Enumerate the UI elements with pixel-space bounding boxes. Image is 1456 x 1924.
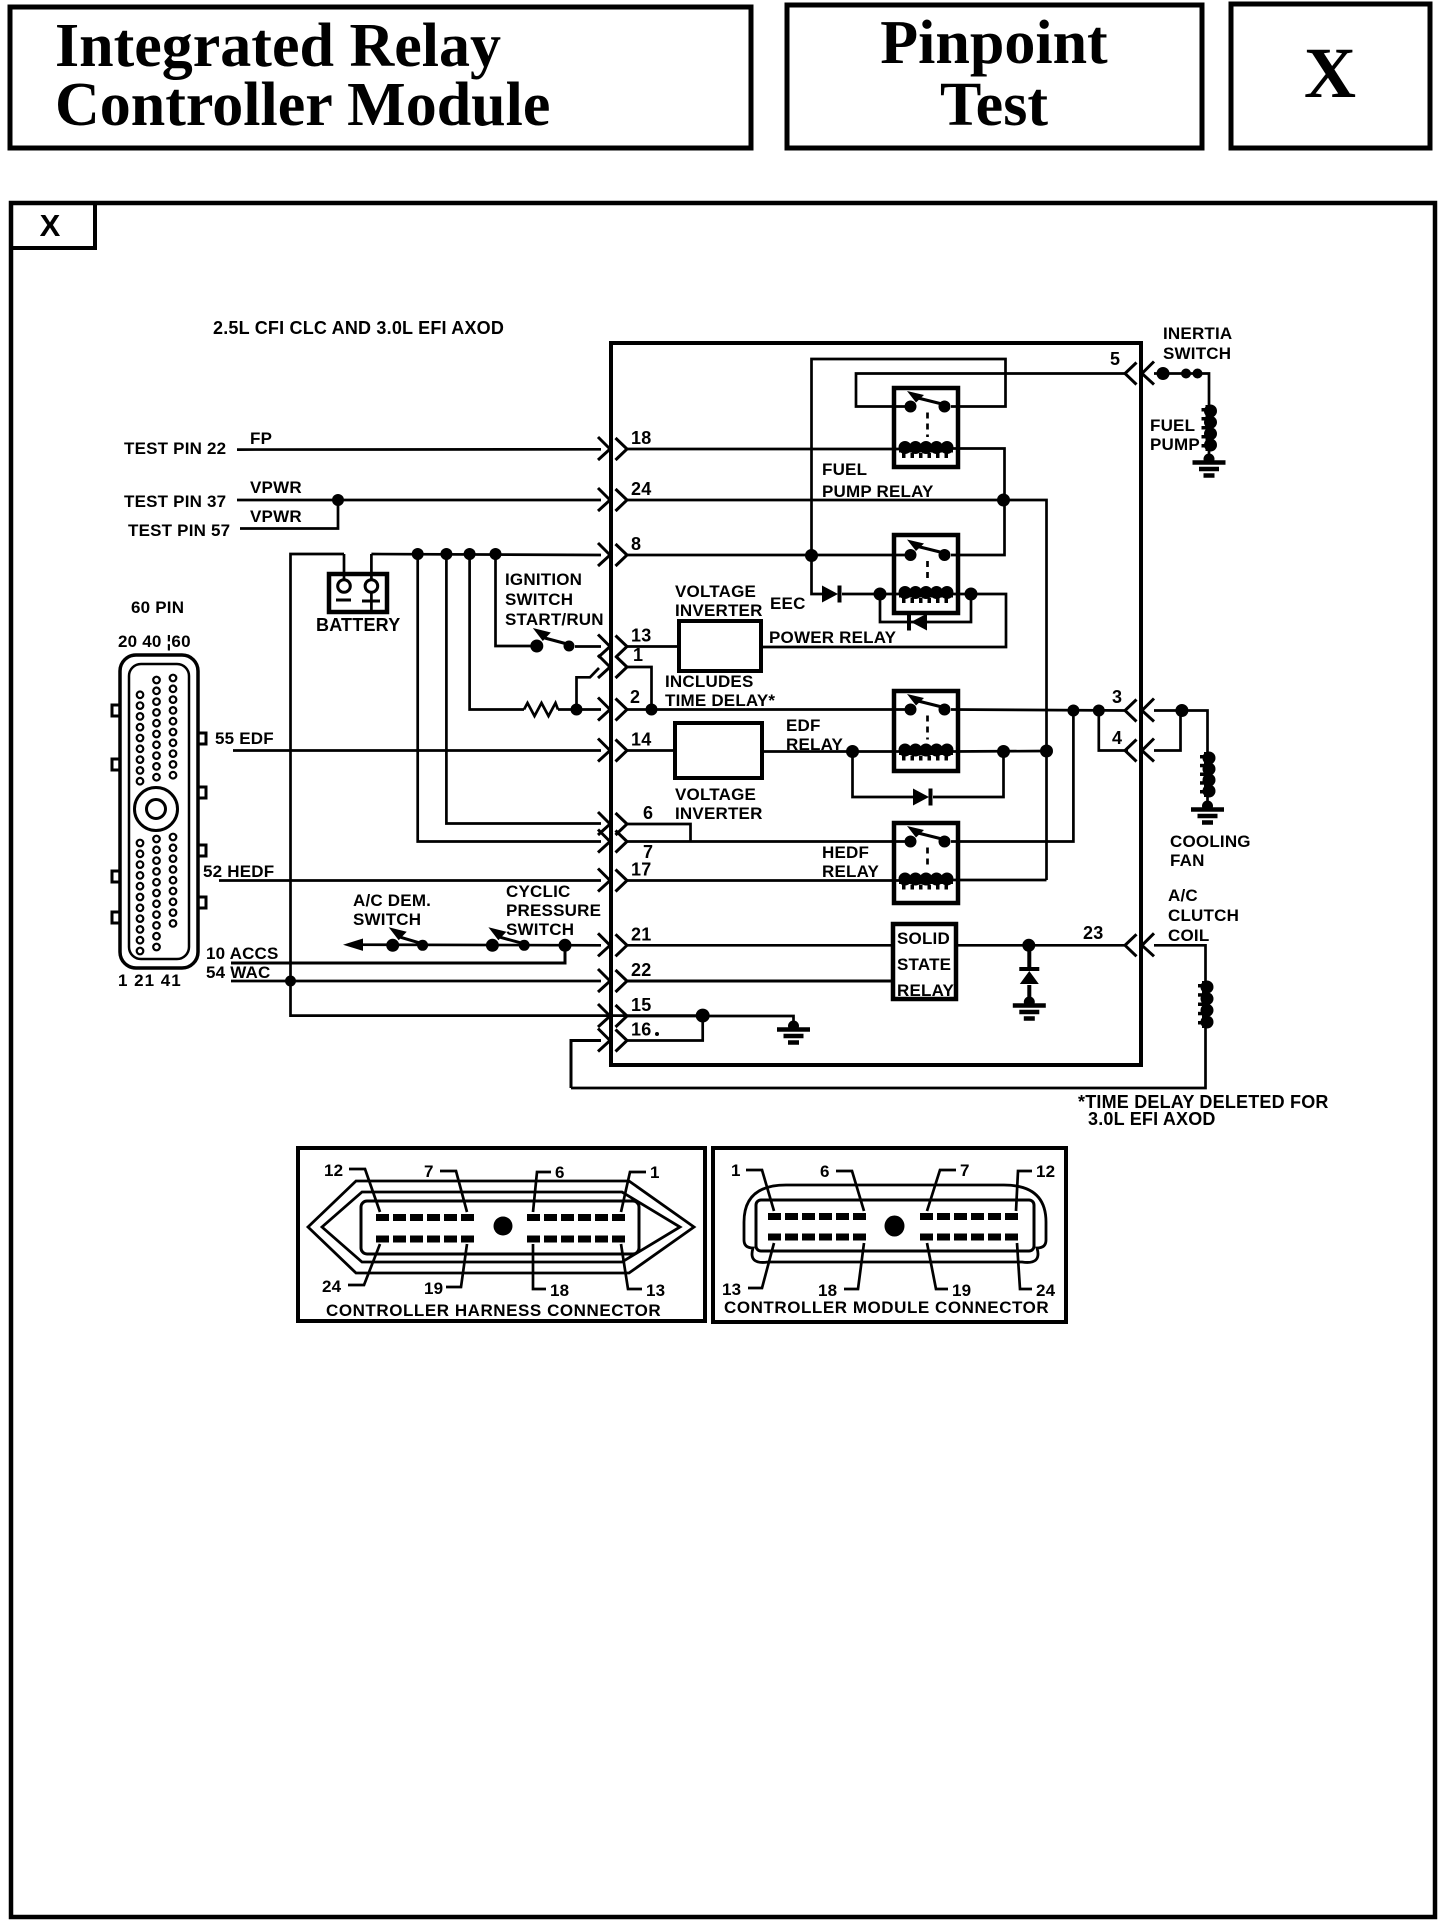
svg-text:SWITCH: SWITCH <box>506 920 574 939</box>
junction EEC coil right / clamp <box>965 588 978 601</box>
svg-text:10 ACCS: 10 ACCS <box>206 944 279 963</box>
svg-text:19: 19 <box>424 1279 443 1298</box>
pinpoint test box <box>787 5 1202 148</box>
wire pin 14 to voltage inverter 2 <box>627 749 675 752</box>
junction VPWR / FP coil / EEC switch <box>997 494 1010 507</box>
wire bus tap D to ignition switch <box>496 554 532 646</box>
pin 5 connector (module right edge) <box>1125 362 1154 385</box>
svg-text:12: 12 <box>324 1161 343 1180</box>
wire 10 ACCS <box>231 946 565 964</box>
svg-text:TIME DELAY*: TIME DELAY* <box>665 691 775 710</box>
pin 4 connector (module right edge) <box>1125 739 1154 762</box>
svg-text:18: 18 <box>631 428 651 448</box>
wire bottom return up to pin 16 <box>571 1041 601 1089</box>
pin 22 connector (module left edge) <box>598 969 627 992</box>
pin 21 connector (module left edge) <box>598 933 627 956</box>
svg-text:4: 4 <box>1112 728 1122 748</box>
wire EEC relay coil feed diode branch <box>812 556 823 595</box>
svg-text:13: 13 <box>631 626 651 646</box>
wire HEDF switch right riser <box>951 711 1073 842</box>
svg-text:BATTERY: BATTERY <box>316 615 400 635</box>
fuel pump relay switch blade <box>918 398 944 405</box>
wire A/C demand to pin 21 <box>348 943 601 946</box>
svg-text:TEST PIN 22: TEST PIN 22 <box>124 439 226 458</box>
wire clamp diode to ground <box>1027 945 1031 1001</box>
wire EDF coil right to VPWR riser <box>953 750 1047 753</box>
svg-text:23: 23 <box>1083 923 1103 943</box>
wire ignition switch to pin 13 <box>575 645 601 648</box>
fuel pump relay switch contacts <box>905 401 917 413</box>
wire pin 4 external jumper <box>1154 711 1181 751</box>
ground A/C clamp <box>1013 997 1046 1019</box>
svg-text:1: 1 <box>731 1161 741 1180</box>
svg-text:1: 1 <box>633 645 643 665</box>
pin 17 connector (module left edge) <box>598 869 627 892</box>
controller module connector box <box>713 1148 1066 1322</box>
wire fuel pump to ground <box>1208 451 1211 456</box>
EEC power relay box <box>894 535 958 613</box>
battery B1 <box>329 554 387 612</box>
pin 23 connector (module right edge) <box>1125 933 1154 956</box>
wire pin 8 row to EEC relay switch <box>627 554 905 557</box>
EDF relay box <box>894 691 958 771</box>
svg-text:20 40 ¦60: 20 40 ¦60 <box>118 632 191 651</box>
wire VPWR: test pin 37 to pin 24 <box>237 499 601 502</box>
svg-text:RELAY: RELAY <box>822 862 880 881</box>
junction pin 8 / FP switch feed / EEC diode <box>805 549 818 562</box>
pin 8 connector (module left edge) <box>598 543 627 566</box>
svg-text:TEST PIN 37: TEST PIN 37 <box>124 492 226 511</box>
svg-text:FUEL: FUEL <box>822 460 867 479</box>
arrow to A/C system <box>343 939 363 951</box>
svg-text:7: 7 <box>960 1161 970 1180</box>
junction bus tap D <box>490 548 502 560</box>
wire pin 3 to cooling fan <box>1154 711 1208 753</box>
wire inverter 2 to EDF coil <box>762 750 899 753</box>
junction EDF coil left / clamp <box>846 745 859 758</box>
HEDF relay coil <box>899 873 954 890</box>
svg-text:INERTIA: INERTIA <box>1163 324 1232 343</box>
svg-text:3.0L EFI AXOD: 3.0L EFI AXOD <box>1088 1109 1216 1129</box>
svg-text:13: 13 <box>646 1281 665 1300</box>
svg-text:FAN: FAN <box>1170 851 1205 870</box>
wire fuel pump relay coil to VPWR node <box>953 449 1005 501</box>
junction SSR output / clamp diode <box>1022 939 1035 952</box>
EEC power relay coil <box>899 586 954 603</box>
EEC power relay switch blade <box>918 547 944 554</box>
harness connector pins <box>376 1214 625 1243</box>
wire cooling fan to ground <box>1206 797 1209 803</box>
module connector center hole <box>885 1216 905 1237</box>
wire pin 7 row to HEDF switch <box>627 840 905 843</box>
wire pin 6 jumper to pin 7 row <box>627 824 691 842</box>
wire VPWR: test pin 57 riser to pin 37 wire <box>240 500 338 529</box>
diode EEC coil clamp <box>909 614 927 631</box>
pin 15 connector (module left edge) <box>598 1004 627 1027</box>
svg-text:3: 3 <box>1112 687 1122 707</box>
wire VPWR bus: battery positive to pin 8 <box>371 554 601 555</box>
wire pin 24 VPWR row <box>627 500 1047 880</box>
harness connector shell <box>308 1181 694 1273</box>
EEC power relay switch contacts <box>905 549 917 561</box>
junction EDF coil right / clamp <box>997 745 1010 758</box>
fuel pump relay armature dashed link <box>926 413 929 438</box>
svg-text:FUEL: FUEL <box>1150 416 1195 435</box>
A/C demand switch <box>386 927 428 952</box>
cyclic pressure switch <box>486 927 530 952</box>
svg-text:Integrated Relay: Integrated Relay <box>55 12 501 80</box>
wire pin 18 to fuel pump relay coil <box>627 448 899 451</box>
svg-text:COOLING: COOLING <box>1170 832 1251 851</box>
wire pin 21 to solid state relay <box>627 944 893 947</box>
wire battery negative: bus corner down the left side to pin 15 <box>291 554 703 1016</box>
svg-text:X: X <box>40 208 61 243</box>
harness connector body <box>361 1201 639 1254</box>
wire pin 15 to internal ground <box>627 1016 794 1024</box>
svg-text:CONTROLLER MODULE CONNECTOR: CONTROLLER MODULE CONNECTOR <box>724 1298 1049 1317</box>
svg-text:PUMP RELAY: PUMP RELAY <box>822 482 934 501</box>
wire EDF switch right to pin 3 <box>951 710 1125 711</box>
svg-text:POWER RELAY: POWER RELAY <box>769 628 897 647</box>
junction bus tap C <box>464 548 476 560</box>
wire pin 4 inside jumper <box>1099 711 1128 751</box>
wire resistor to pin 2 <box>558 708 601 711</box>
HEDF relay box <box>894 823 958 903</box>
junction bus tap A <box>412 548 424 560</box>
svg-text:2: 2 <box>630 687 640 707</box>
controller harness connector box <box>298 1148 705 1321</box>
inertia switch contact A <box>1157 367 1170 380</box>
svg-text:2.5L CFI CLC AND 3.0L EFI AXOD: 2.5L CFI CLC AND 3.0L EFI AXOD <box>213 318 504 338</box>
svg-text:EDF: EDF <box>786 716 821 735</box>
junction pin1/pin2 (inside) <box>646 704 658 716</box>
ignition switch <box>530 628 574 653</box>
svg-text:TEST PIN 57: TEST PIN 57 <box>128 521 230 540</box>
pin 16 connector (module left edge) <box>598 1029 627 1052</box>
svg-text:CLUTCH: CLUTCH <box>1168 906 1239 925</box>
HEDF relay armature dashed link <box>926 848 929 869</box>
pin 3 connector (module right edge) <box>1125 699 1154 722</box>
EDF relay coil <box>899 744 954 761</box>
wire bus tap A to pin 7 <box>418 554 601 842</box>
wire bus tap C to resistor to pin 2 <box>470 554 524 710</box>
fuel pump motor coil <box>1202 405 1218 452</box>
svg-text:VPWR: VPWR <box>250 478 302 497</box>
wire pin 22 to solid state relay <box>627 980 893 983</box>
wire EEC coil right to voltage inverter <box>761 594 1006 647</box>
module connector shell <box>744 1185 1046 1262</box>
svg-text:CONTROLLER HARNESS CONNECTOR: CONTROLLER HARNESS CONNECTOR <box>326 1301 661 1320</box>
wire 52 HEDF to pin 17 <box>219 879 601 882</box>
svg-text:A/C: A/C <box>1168 886 1198 905</box>
ground cooling fan <box>1191 801 1224 823</box>
wire FP: test pin 22 to pin 18 <box>237 448 601 451</box>
pin 14 connector (module left edge) <box>598 739 627 762</box>
svg-text:6: 6 <box>555 1163 565 1182</box>
EDF relay switch blade <box>918 701 944 708</box>
solid state relay box <box>893 924 956 999</box>
wire FP switch feed loop <box>812 359 1006 556</box>
diode A/C clutch clamp <box>1019 969 1039 984</box>
EDF relay switch contacts <box>905 704 917 716</box>
pin 24 connector (module left edge) <box>598 488 627 511</box>
wire HEDF coil right to VPWR riser <box>953 879 1047 882</box>
svg-text:PRESSURE: PRESSURE <box>506 901 601 920</box>
svg-text:CYCLIC: CYCLIC <box>506 882 570 901</box>
svg-text:INVERTER: INVERTER <box>675 601 763 620</box>
svg-text:COIL: COIL <box>1168 926 1209 945</box>
wire bus tap B to pin 6 <box>446 554 601 824</box>
svg-text:INCLUDES: INCLUDES <box>665 672 754 691</box>
resistor (time delay) <box>524 703 558 716</box>
junction bus tap B <box>440 548 452 560</box>
svg-text:17: 17 <box>631 860 651 880</box>
EDF relay armature dashed link <box>926 716 929 740</box>
svg-text:A/C DEM.: A/C DEM. <box>353 891 431 910</box>
svg-text:SWITCH: SWITCH <box>1163 344 1231 363</box>
svg-text:1 21 41: 1 21 41 <box>118 971 182 990</box>
module connector body <box>756 1200 1034 1251</box>
svg-text:54 WAC: 54 WAC <box>206 963 271 982</box>
svg-text:8: 8 <box>631 534 641 554</box>
svg-text:IGNITION: IGNITION <box>505 570 582 589</box>
svg-text:PUMP: PUMP <box>1150 435 1200 454</box>
svg-text:SWITCH: SWITCH <box>353 910 421 929</box>
HEDF relay switch contacts <box>905 836 917 848</box>
60-pin connector pin holes <box>137 675 177 955</box>
svg-text:52 HEDF: 52 HEDF <box>203 862 274 881</box>
60-pin connector body <box>112 655 206 968</box>
svg-text:22: 22 <box>631 960 651 980</box>
junction pin1/pin2 tie (outside) <box>571 704 583 716</box>
pin 2 connector (module left edge) <box>598 698 627 721</box>
svg-text:VOLTAGE: VOLTAGE <box>675 785 756 804</box>
wire pin 1 jumper to pin 2 row <box>627 667 652 710</box>
diode EDF coil clamp <box>913 789 931 806</box>
svg-text:INVERTER: INVERTER <box>675 804 763 823</box>
controller module outline <box>611 343 1141 1065</box>
pin 18 connector (module left edge) <box>598 437 627 460</box>
svg-text:Pinpoint: Pinpoint <box>880 9 1108 77</box>
wire EDF clamp loop <box>853 752 1004 798</box>
header title box <box>10 7 751 148</box>
pin 16 stray dot <box>655 1032 659 1036</box>
harness connector center hole <box>494 1217 513 1236</box>
svg-text:VPWR: VPWR <box>250 507 302 526</box>
svg-text:24: 24 <box>631 479 651 499</box>
inertia switch contact C <box>1193 369 1203 379</box>
ground fuel pump <box>1193 454 1226 476</box>
wire junction up to pin 1 <box>577 668 600 710</box>
wire 55 EDF to pin 14 <box>233 749 601 752</box>
60-pin connector mounting hole <box>135 788 178 831</box>
module connector pins <box>768 1213 1018 1241</box>
svg-text:Test: Test <box>940 71 1048 139</box>
junction EEC coil left / clamp <box>874 588 887 601</box>
svg-text:18: 18 <box>550 1281 569 1300</box>
EEC power relay armature dashed link <box>926 561 929 582</box>
svg-text:14: 14 <box>631 730 651 750</box>
svg-text:HEDF: HEDF <box>822 843 869 862</box>
voltage inverter 1 box <box>679 621 761 671</box>
junction pin 3 node / pin 4 jumper <box>1093 705 1105 717</box>
svg-text:VOLTAGE: VOLTAGE <box>675 582 756 601</box>
pin 6 connector (module left edge) <box>598 812 627 835</box>
wire solid state relay to pin 23 <box>956 944 1125 947</box>
svg-text:START/RUN: START/RUN <box>505 610 604 629</box>
svg-text:21: 21 <box>631 924 651 944</box>
svg-text:6: 6 <box>820 1162 830 1181</box>
junction pin3/pin4 external <box>1175 704 1188 717</box>
wire EEC clamp loop <box>880 594 971 622</box>
svg-text:Controller Module: Controller Module <box>55 71 550 139</box>
fuel pump relay coil <box>899 441 954 458</box>
svg-text:EEC: EEC <box>770 594 806 613</box>
cooling fan motor coil <box>1200 752 1216 798</box>
wire pin 5 to inertia switch <box>1154 374 1209 406</box>
wire pin 5 to FP switch <box>856 374 1125 407</box>
pin 1 connector (module left edge) <box>598 655 627 678</box>
wire pin 23 to A/C clutch coil <box>1154 945 1206 981</box>
svg-text:X: X <box>1304 33 1356 113</box>
svg-text:7: 7 <box>424 1162 434 1181</box>
wire A/C clutch coil to bottom return <box>571 1028 1206 1088</box>
svg-text:16: 16 <box>631 1020 651 1040</box>
svg-text:FP: FP <box>250 429 272 448</box>
svg-text:6: 6 <box>643 803 653 823</box>
svg-text:RELAY: RELAY <box>897 981 955 1000</box>
inertia switch contact B <box>1181 369 1191 379</box>
wire pin 13 to voltage inverter 1 <box>627 645 679 648</box>
junction ACCS / pin 21 <box>559 939 572 952</box>
wire pin 2 row to EDF switch <box>627 708 905 711</box>
svg-text:24: 24 <box>322 1277 342 1296</box>
svg-text:STATE: STATE <box>897 955 951 974</box>
svg-text:15: 15 <box>631 995 651 1015</box>
wire EEC switch right riser <box>951 500 1005 555</box>
junction pin 3 node / HEDF riser <box>1067 705 1079 717</box>
ground module internal <box>777 1021 810 1043</box>
wire pin 17 to HEDF coil <box>627 879 899 882</box>
fuel pump relay box <box>894 388 958 467</box>
pin 7 connector (module left edge) <box>598 830 627 853</box>
svg-text:12: 12 <box>1036 1162 1055 1181</box>
header X box <box>1231 4 1430 148</box>
svg-text:60 PIN: 60 PIN <box>131 598 184 617</box>
junction EDF coil / VPWR riser <box>1040 745 1053 758</box>
A/C clutch coil winding <box>1198 981 1214 1029</box>
svg-text:55 EDF: 55 EDF <box>215 729 274 748</box>
svg-text:SWITCH: SWITCH <box>505 590 573 609</box>
svg-text:5: 5 <box>1110 349 1120 369</box>
diode EEC coil feed <box>822 586 840 603</box>
svg-text:SOLID: SOLID <box>897 929 950 948</box>
svg-text:13: 13 <box>722 1280 741 1299</box>
pin 13 connector (module left edge) <box>598 635 627 658</box>
wire 54 WAC to pin 22 <box>231 980 601 983</box>
junction pin 15 / pin 16 <box>696 1009 710 1023</box>
junction VPWR test pins <box>332 494 344 506</box>
HEDF relay switch blade <box>918 833 944 840</box>
svg-text:RELAY: RELAY <box>786 735 844 754</box>
page corner X tab box <box>11 203 95 248</box>
wire diode to EEC coil <box>842 593 899 596</box>
junction WAC / battery-negative riser <box>285 976 296 987</box>
wire pin 16 jumper to pin 15 <box>627 1016 703 1041</box>
svg-text:1: 1 <box>650 1163 660 1182</box>
voltage inverter 2 box <box>675 723 762 778</box>
